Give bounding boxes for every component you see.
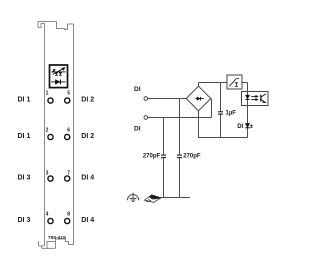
svg-text:1µF: 1µF xyxy=(226,110,237,116)
svg-text:DI 3: DI 3 xyxy=(18,174,31,181)
svg-text:DI 4: DI 4 xyxy=(81,174,94,181)
svg-text:8: 8 xyxy=(67,211,70,217)
svg-text:3: 3 xyxy=(46,170,49,176)
svg-text:270pF: 270pF xyxy=(183,153,201,159)
svg-text:5: 5 xyxy=(67,90,70,96)
svg-text:750-415: 750-415 xyxy=(48,235,66,241)
svg-text:7: 7 xyxy=(67,170,70,176)
svg-text:270pF: 270pF xyxy=(143,153,161,159)
svg-text:DI: DI xyxy=(134,86,141,93)
svg-text:DI 1: DI 1 xyxy=(18,133,31,140)
svg-text:6: 6 xyxy=(67,128,70,134)
svg-text:DI: DI xyxy=(134,126,141,133)
svg-text:DI 4: DI 4 xyxy=(81,217,94,224)
svg-text:1: 1 xyxy=(46,90,49,96)
svg-text:DI 3: DI 3 xyxy=(18,217,31,224)
svg-text:DI 1: DI 1 xyxy=(18,96,31,103)
svg-text:4: 4 xyxy=(46,211,49,217)
svg-text:DI: DI xyxy=(237,124,243,130)
svg-text:2: 2 xyxy=(46,128,49,134)
svg-text:DI 2: DI 2 xyxy=(81,96,94,103)
svg-text:DI 2: DI 2 xyxy=(81,133,94,140)
